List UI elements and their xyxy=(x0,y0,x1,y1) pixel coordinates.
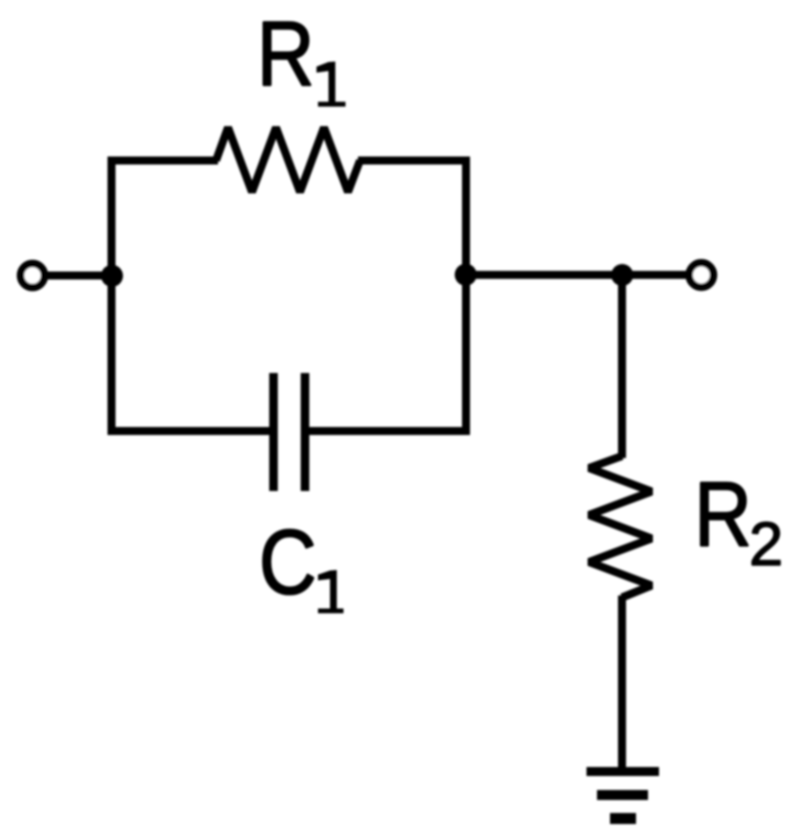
resistor R2 xyxy=(589,456,652,598)
terminal input xyxy=(21,264,45,288)
svg-text:R: R xyxy=(694,464,752,566)
wire right vertical branch xyxy=(462,161,470,432)
node A (left junction) xyxy=(101,265,123,287)
label C1 xyxy=(259,511,344,613)
wire bottom-left segment to C1 xyxy=(108,427,274,435)
wire output node line xyxy=(466,271,701,279)
node B (right junction) xyxy=(455,264,477,286)
capacitor C1 xyxy=(274,373,306,491)
wire top-left segment to R1 xyxy=(108,157,219,165)
wire bottom-right segment from C1 xyxy=(305,427,470,435)
node C (output junction) xyxy=(611,264,633,286)
label R2 xyxy=(694,464,783,579)
resistor R1 xyxy=(216,128,360,193)
label R1 xyxy=(257,3,346,106)
wire input terminal to left node xyxy=(32,272,112,280)
svg-text:R: R xyxy=(257,3,315,105)
svg-text:2: 2 xyxy=(749,510,783,579)
wire R2 top xyxy=(618,275,626,458)
ground xyxy=(587,772,660,819)
wire R2 bottom to ground xyxy=(618,596,626,772)
terminal output xyxy=(689,263,713,287)
wire left vertical branch xyxy=(108,161,116,432)
svg-text:C: C xyxy=(259,511,317,613)
wire top-right segment from R1 xyxy=(358,157,470,165)
